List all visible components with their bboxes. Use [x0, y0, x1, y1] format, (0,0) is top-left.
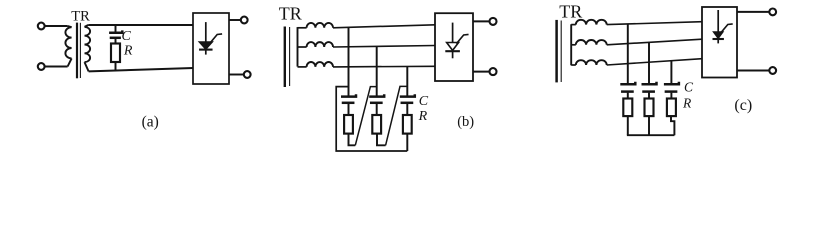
svg-text:TR: TR	[279, 4, 302, 24]
svg-text:C: C	[122, 29, 132, 44]
svg-text:C: C	[684, 80, 694, 95]
svg-text:R: R	[418, 109, 428, 124]
svg-text:(c): (c)	[734, 97, 752, 114]
svg-text:(b): (b)	[457, 114, 474, 130]
svg-text:R: R	[682, 95, 692, 110]
svg-text:C: C	[419, 94, 429, 109]
svg-text:TR: TR	[71, 8, 90, 24]
svg-text:TR: TR	[559, 2, 582, 22]
svg-text:(a): (a)	[142, 113, 159, 130]
svg-text:R: R	[123, 43, 133, 58]
